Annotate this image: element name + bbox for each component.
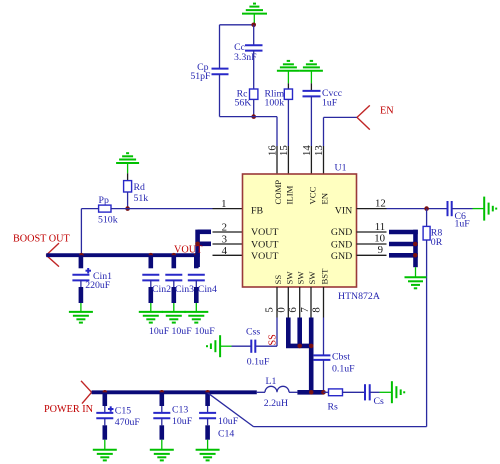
node comp junction bbox=[251, 114, 256, 119]
svg-text:6: 6 bbox=[287, 307, 299, 313]
node SW a bbox=[297, 344, 302, 349]
node GND r3 bbox=[413, 242, 418, 247]
svg-text:Pp: Pp bbox=[99, 195, 109, 206]
wire FB down to bus bbox=[80, 209, 82, 256]
svg-text:100k: 100k bbox=[265, 98, 285, 109]
svg-text:1: 1 bbox=[221, 198, 226, 210]
svg-text:16: 16 bbox=[267, 145, 279, 156]
svg-text:11: 11 bbox=[375, 221, 385, 233]
wire SW thick segment bbox=[297, 390, 323, 395]
wire SS horizontal bbox=[255, 345, 277, 347]
ground top (inverted) bbox=[242, 4, 267, 23]
wire SW bar 7 bbox=[297, 318, 302, 346]
svg-text:3: 3 bbox=[222, 234, 227, 246]
pin 8 bbox=[323, 287, 325, 318]
ground Cin1 bbox=[69, 312, 93, 323]
wire comp horizontal bbox=[220, 116, 278, 118]
capacitor Cin2 bbox=[142, 255, 159, 312]
svg-text:1uF: 1uF bbox=[455, 218, 471, 229]
svg-text:10uF: 10uF bbox=[195, 326, 216, 337]
wire R8 down right side bbox=[426, 240, 428, 427]
wire gnd to Rd bbox=[127, 173, 129, 180]
svg-text:2: 2 bbox=[222, 222, 227, 234]
svg-text:HTN872A: HTN872A bbox=[338, 291, 380, 302]
resistor Pp bbox=[99, 205, 111, 212]
wire VOUT bar bbox=[195, 230, 200, 267]
svg-text:VCC: VCC bbox=[307, 186, 317, 204]
node VOUT r3 bbox=[195, 242, 200, 247]
capacitor C14 bbox=[199, 392, 216, 450]
pin 13 bbox=[323, 146, 325, 174]
svg-text:220uF: 220uF bbox=[85, 280, 111, 291]
wire EN horizontal bbox=[324, 116, 358, 118]
node SW b bbox=[309, 344, 314, 349]
svg-text:0.1uF: 0.1uF bbox=[247, 356, 270, 367]
svg-text:GND: GND bbox=[331, 251, 352, 262]
node GND r4 bbox=[413, 253, 418, 258]
wire stub pin2 bbox=[198, 230, 211, 235]
ground above Cvcc (inverted) bbox=[300, 61, 323, 83]
capacitor Cin1 bbox=[72, 255, 91, 280]
wire Pp to node bbox=[111, 208, 128, 210]
svg-text:Rs: Rs bbox=[328, 401, 339, 412]
node bus-Cin2 bbox=[149, 253, 154, 258]
svg-text:1uF: 1uF bbox=[322, 97, 338, 108]
pin 10 bbox=[357, 243, 387, 245]
svg-text:POWER IN: POWER IN bbox=[44, 404, 94, 415]
wire Cc upper bbox=[253, 25, 255, 46]
wire pin14 vertical bbox=[310, 96, 312, 146]
svg-text:0.1uF: 0.1uF bbox=[332, 363, 355, 374]
node SW-L1 bbox=[309, 390, 314, 395]
wire BST vertical bbox=[323, 318, 325, 356]
capacitor C13 bbox=[153, 392, 170, 450]
wire bus to L1 bbox=[257, 391, 265, 393]
node bus-FB bbox=[79, 253, 84, 258]
pin 3 bbox=[213, 243, 243, 245]
capacitor Cbst bbox=[314, 355, 331, 360]
svg-text:L1: L1 bbox=[266, 376, 277, 387]
wire SS vertical bbox=[276, 318, 278, 347]
svg-text:Cin3: Cin3 bbox=[175, 284, 194, 295]
ground C15 bbox=[93, 450, 117, 461]
svg-text:Rd: Rd bbox=[134, 182, 146, 193]
capacitor C6 bbox=[448, 201, 452, 216]
wire to Rs bbox=[324, 391, 329, 393]
wire top horizontal bbox=[220, 24, 254, 26]
svg-text:10uF: 10uF bbox=[218, 416, 239, 427]
svg-text:BST: BST bbox=[320, 268, 330, 285]
wire POWER IN bus bbox=[92, 390, 257, 394]
wire SW bar 8 long bbox=[309, 318, 314, 393]
ground Cs (sideways) bbox=[380, 381, 405, 403]
wire left of Pp bbox=[81, 208, 98, 210]
svg-text:56K: 56K bbox=[235, 98, 252, 109]
ground Cin3 bbox=[162, 312, 186, 323]
svg-text:EN: EN bbox=[320, 192, 330, 204]
svg-text:SS: SS bbox=[273, 275, 283, 285]
svg-text:15: 15 bbox=[278, 145, 290, 156]
capacitor Cp bbox=[212, 69, 229, 75]
capacitor Cvcc bbox=[303, 91, 321, 97]
pin 2 bbox=[213, 231, 243, 233]
node bus-C13 bbox=[160, 390, 165, 395]
pin 14 bbox=[310, 146, 312, 174]
svg-text:0: 0 bbox=[275, 307, 287, 312]
capacitor Cin3 bbox=[165, 255, 182, 312]
capacitor C15 bbox=[96, 392, 113, 418]
wire BOOST OUT bus bbox=[46, 253, 200, 257]
node bus-C14 bbox=[205, 390, 210, 395]
pin 7 bbox=[299, 287, 301, 318]
svg-text:GND: GND bbox=[331, 240, 352, 251]
capacitor Cs bbox=[365, 384, 370, 400]
svg-text:VIN: VIN bbox=[335, 205, 353, 216]
wire pin16 vertical bbox=[276, 117, 278, 146]
wire pin13 vertical (EN net) bbox=[323, 117, 325, 146]
pin 15 bbox=[287, 146, 289, 174]
wire Rs to Cs bbox=[343, 391, 365, 393]
svg-text:7: 7 bbox=[299, 307, 311, 313]
wire L1 to SW bbox=[289, 391, 297, 393]
node FB junction bbox=[125, 206, 130, 211]
node bus-Cin4 bbox=[194, 253, 199, 258]
port EN arrow bbox=[357, 105, 370, 129]
pin 9 bbox=[357, 254, 387, 256]
wire GND stub 10 bbox=[389, 242, 418, 247]
svg-text:C13: C13 bbox=[172, 404, 188, 415]
svg-text:0R: 0R bbox=[431, 237, 443, 248]
wire node to pin1 bbox=[128, 208, 213, 210]
svg-text:GND: GND bbox=[331, 227, 352, 238]
svg-text:C15: C15 bbox=[115, 405, 131, 416]
svg-text:4: 4 bbox=[222, 245, 228, 257]
svg-text:Cin4: Cin4 bbox=[198, 284, 217, 295]
svg-text:C14: C14 bbox=[218, 428, 234, 439]
wire Rd to node bbox=[127, 192, 129, 209]
svg-text:VOUT: VOUT bbox=[174, 245, 203, 256]
wire Cbst down bbox=[323, 360, 325, 392]
resistor Rc bbox=[250, 89, 258, 99]
ground above Rlim (inverted) bbox=[277, 61, 300, 83]
node bus-Cin3 bbox=[172, 253, 177, 258]
wire C6 to ground bbox=[452, 208, 473, 210]
wire Cs to ground bbox=[370, 391, 380, 393]
wire GND bar bbox=[413, 230, 418, 268]
wire Cc to Rc bbox=[253, 51, 255, 89]
pin 8sw bbox=[310, 287, 312, 318]
ground GND bus bbox=[405, 267, 427, 288]
svg-text:Cbst: Cbst bbox=[332, 352, 350, 363]
node bus-C15 bbox=[103, 390, 108, 395]
wire Rc to node bbox=[253, 99, 255, 116]
svg-text:10uF: 10uF bbox=[149, 326, 170, 337]
svg-text:10uF: 10uF bbox=[172, 416, 193, 427]
wire VIN net bbox=[387, 208, 448, 210]
wire left branch upper bbox=[219, 25, 221, 69]
resistor Rlim bbox=[284, 89, 292, 99]
svg-text:8: 8 bbox=[311, 307, 323, 312]
svg-text:10uF: 10uF bbox=[172, 326, 193, 337]
wire bottom horizontal bbox=[254, 426, 427, 428]
svg-text:Css: Css bbox=[246, 327, 260, 338]
wire SW horizontal bar bbox=[286, 344, 314, 349]
wire SW bar 6 bbox=[286, 318, 291, 346]
resistor Rs bbox=[329, 389, 343, 396]
svg-text:51pF: 51pF bbox=[190, 71, 211, 82]
node SW-Rs bbox=[321, 390, 326, 395]
node top junction bbox=[251, 23, 256, 28]
ground Cin4 bbox=[184, 312, 208, 323]
pin 6 bbox=[287, 287, 289, 318]
wire stub pin3 bbox=[198, 242, 211, 247]
svg-text:EN: EN bbox=[380, 105, 394, 116]
svg-text:VOUT: VOUT bbox=[251, 251, 278, 262]
op-amp U1 IC body bbox=[243, 174, 357, 287]
port BOOST OUT arrow bbox=[46, 243, 59, 267]
node VIN junction bbox=[424, 206, 429, 211]
wire Cin1 lower bbox=[80, 280, 82, 312]
ground C6 (sideways) bbox=[473, 197, 497, 221]
inductor L1 bbox=[265, 386, 289, 392]
wire VIN to R8 bbox=[426, 209, 428, 227]
svg-text:ILIM: ILIM bbox=[284, 185, 294, 204]
svg-text:470uF: 470uF bbox=[115, 417, 141, 428]
resistor R8 bbox=[423, 226, 430, 240]
svg-text:COMP: COMP bbox=[273, 180, 283, 205]
svg-text:Cs: Cs bbox=[374, 396, 385, 407]
wire gnd to Rlim bbox=[287, 83, 289, 89]
pin 16 bbox=[276, 146, 278, 174]
capacitor Cin4 bbox=[188, 255, 205, 312]
svg-text:9: 9 bbox=[378, 244, 383, 256]
port POWER IN arrow bbox=[81, 381, 92, 404]
ground C14 bbox=[196, 450, 220, 461]
svg-text:U1: U1 bbox=[335, 163, 347, 174]
svg-text:SW: SW bbox=[307, 271, 317, 285]
ground Css (sideways left) bbox=[207, 335, 232, 357]
wire diagonal VIN return bbox=[208, 393, 254, 427]
svg-text:SW: SW bbox=[284, 271, 294, 285]
svg-text:14: 14 bbox=[301, 145, 313, 156]
svg-text:510k: 510k bbox=[98, 215, 118, 226]
svg-text:51k: 51k bbox=[134, 193, 149, 204]
wire gnd to Cvcc bbox=[310, 83, 312, 91]
svg-text:12: 12 bbox=[375, 197, 386, 209]
svg-text:10: 10 bbox=[374, 233, 385, 245]
svg-text:VOUT: VOUT bbox=[251, 227, 278, 238]
wire Css to ground bbox=[232, 345, 252, 347]
wire C15 lower bbox=[104, 418, 106, 450]
resistor Rd bbox=[124, 181, 132, 192]
svg-text:SS: SS bbox=[267, 334, 278, 346]
pin 4 bbox=[213, 254, 243, 256]
capacitor Cc bbox=[245, 45, 263, 50]
ground above Rd (inverted) bbox=[116, 153, 139, 173]
wire left branch lower bbox=[219, 74, 221, 116]
svg-text:BOOST OUT: BOOST OUT bbox=[13, 233, 70, 244]
svg-text:5: 5 bbox=[264, 307, 276, 312]
wire GND stub 11 bbox=[389, 230, 418, 235]
svg-text:FB: FB bbox=[251, 205, 263, 216]
svg-text:2.2uH: 2.2uH bbox=[264, 398, 288, 409]
svg-text:VOUT: VOUT bbox=[251, 240, 278, 251]
svg-text:Cin2: Cin2 bbox=[152, 284, 171, 295]
ground C13 bbox=[150, 450, 174, 461]
ground Cin2 bbox=[139, 312, 163, 323]
wire GND stub 9 bbox=[389, 253, 418, 258]
svg-text:SW: SW bbox=[296, 271, 306, 285]
svg-text:13: 13 bbox=[313, 145, 325, 156]
pin 1 bbox=[213, 208, 243, 210]
pin 12 bbox=[357, 208, 387, 210]
pin 11 bbox=[357, 231, 387, 233]
wire pin15 vertical bbox=[287, 99, 289, 146]
pin 5 bbox=[276, 287, 278, 318]
capacitor Css bbox=[251, 340, 255, 353]
